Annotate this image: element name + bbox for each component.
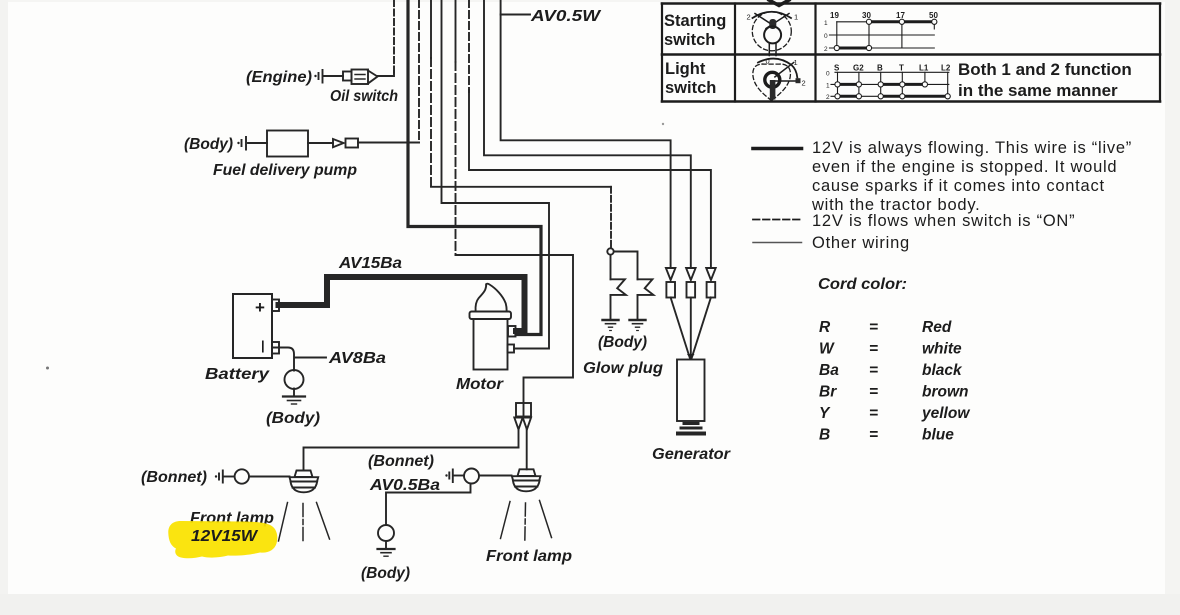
svg-text:white: white	[922, 341, 962, 358]
svg-text:Oil switch: Oil switch	[330, 88, 398, 105]
svg-text:(Body): (Body)	[598, 334, 647, 351]
svg-text:AV0.5W: AV0.5W	[530, 8, 602, 25]
motor terminal 1	[508, 326, 516, 337]
generator body	[677, 360, 705, 422]
wire generator diode 1	[501, 0, 671, 268]
light switch rotary symbol	[753, 57, 806, 101]
svg-text:1: 1	[794, 58, 798, 67]
battery body connector circle	[285, 370, 304, 389]
svg-text:Other wiring: Other wiring	[812, 234, 910, 252]
wire motor terminal 2	[442, 0, 550, 349]
starting switch rotary symbol	[747, 12, 799, 56]
svg-text:=: =	[869, 362, 878, 379]
fuel delivery pump box	[267, 131, 308, 157]
wire middle connector to body ground	[386, 484, 471, 525]
wire glow plug feed	[430, 0, 432, 58]
svg-text:12V is always flowing. This wi: 12V is always flowing. This wire is “liv…	[812, 139, 1132, 157]
svg-text:1: 1	[824, 20, 828, 27]
wire fuel pump feed (dashed riser)	[418, 0, 420, 143]
svg-text:(Bonnet): (Bonnet)	[368, 453, 434, 470]
front lamp left rays	[279, 503, 330, 542]
svg-text:Red: Red	[922, 319, 952, 336]
svg-text:2: 2	[747, 13, 751, 22]
speck	[46, 367, 49, 370]
svg-text:switch: switch	[665, 79, 716, 97]
svg-text:12V is flows when switch is “O: 12V is flows when switch is “ON”	[812, 212, 1075, 230]
svg-text:brown: brown	[922, 384, 969, 401]
wire battery cable AV15Ba (thick)	[279, 277, 525, 331]
svg-text:1: 1	[794, 13, 798, 22]
svg-text:(Bonnet): (Bonnet)	[141, 469, 207, 486]
generator shaft coupling	[684, 422, 698, 425]
light switch contact diagram	[826, 64, 951, 102]
svg-text:0: 0	[824, 33, 828, 40]
svg-text:=: =	[869, 384, 878, 401]
svg-text:AV15Ba: AV15Ba	[338, 255, 403, 272]
glow plug ground right	[630, 319, 646, 321]
svg-text:0: 0	[826, 71, 830, 78]
svg-text:switch: switch	[664, 31, 715, 49]
generator diode 2	[686, 268, 696, 280]
glow plug ground left	[603, 319, 619, 321]
battery	[233, 294, 272, 358]
svg-text:Battery: Battery	[205, 366, 271, 383]
legend thin line sample	[753, 242, 802, 244]
wire fuel pump to connector	[308, 142, 333, 144]
wire middle bonnet tick to connector circle	[453, 475, 464, 477]
wire battery ground below circle	[293, 389, 295, 396]
svg-text:W: W	[819, 341, 835, 358]
battery negative terminal	[272, 342, 279, 354]
svg-text:Cord color:: Cord color:	[818, 276, 907, 293]
wire oil switch feed (dashed riser)	[393, 0, 395, 73]
svg-text:|: |	[261, 338, 265, 353]
battery positive terminal	[272, 300, 279, 312]
svg-text:1: 1	[826, 83, 830, 90]
svg-text:B: B	[877, 64, 883, 73]
svg-text:in the same manner: in the same manner	[958, 81, 1118, 100]
svg-text:even if the engine is stopped.: even if the engine is stopped. It would	[812, 158, 1117, 176]
oil switch connector	[343, 72, 352, 81]
svg-text:17: 17	[896, 11, 905, 20]
engine chassis tick at oil switch	[314, 75, 316, 77]
svg-text:Ba: Ba	[819, 362, 839, 379]
motor body	[474, 319, 508, 370]
svg-text:L2: L2	[941, 64, 951, 73]
wire lamp bus	[304, 448, 519, 471]
glow plug element left	[611, 279, 626, 295]
svg-text:Generator: Generator	[652, 446, 731, 463]
body chassis tick at fuel pump	[237, 142, 239, 144]
bottom body ground circle	[378, 525, 394, 541]
svg-text:(Engine): (Engine)	[246, 69, 312, 86]
svg-text:Light: Light	[665, 60, 706, 78]
svg-text:+: +	[255, 298, 265, 317]
bottom body ground symbol	[378, 548, 395, 550]
fuse connector triangles	[514, 418, 531, 430]
svg-text:S: S	[834, 64, 840, 73]
front lamp left	[295, 471, 313, 478]
switch table frame	[662, 4, 1160, 102]
svg-text:50: 50	[929, 11, 938, 20]
wire glow node down to left plug	[610, 255, 612, 279]
wire AV0.5W leader	[501, 14, 530, 16]
glow plug element right	[638, 279, 654, 295]
glow plug node circle	[607, 248, 613, 254]
svg-text:Y: Y	[819, 405, 831, 422]
battery ground symbol	[283, 395, 305, 397]
wire AV8Ba leader	[295, 357, 326, 359]
svg-text:T: T	[899, 64, 904, 73]
svg-text:yellow: yellow	[921, 405, 970, 422]
wire glow plugs to grounds	[611, 295, 638, 320]
wire fuse right lead to right lamp	[526, 430, 528, 470]
svg-text:Starting: Starting	[664, 12, 726, 30]
yellow highlighter mark	[168, 521, 277, 558]
svg-text:B: B	[819, 427, 830, 444]
legend thick line sample	[753, 147, 802, 151]
starting switch contact diagram	[824, 11, 938, 53]
svg-text:G2: G2	[853, 64, 864, 73]
svg-text:cause sparks if it comes into: cause sparks if it comes into contact	[812, 177, 1105, 195]
svg-text:=: =	[869, 405, 878, 422]
left lamp connector circle	[235, 469, 249, 483]
wire starter live feed (thick)	[408, 0, 541, 335]
wire middle connector circle to right lamp	[480, 475, 512, 477]
wire generator diode outputs converge	[671, 298, 711, 359]
wire left connector circle to left lamp	[249, 476, 290, 478]
svg-text:=: =	[869, 319, 878, 336]
svg-text:(Body): (Body)	[361, 565, 410, 582]
wire generator diode 3	[468, 0, 470, 92]
svg-text:12V15W: 12V15W	[191, 528, 259, 545]
svg-text:Fuel delivery pump: Fuel delivery pump	[213, 162, 357, 179]
wire fuse left lead to lamp bus	[518, 430, 520, 448]
svg-text:Front lamp: Front lamp	[486, 548, 572, 565]
svg-text:Both 1 and 2 function: Both 1 and 2 function	[958, 60, 1132, 79]
svg-text:Br: Br	[819, 384, 837, 401]
svg-text:19: 19	[830, 11, 839, 20]
fuel pump connector triangle	[333, 139, 344, 147]
middle bonnet chassis tick	[445, 474, 447, 476]
svg-text:Glow plug: Glow plug	[583, 360, 664, 377]
front lamp right	[518, 469, 536, 476]
generator diode 3	[706, 268, 716, 280]
svg-text:0: 0	[766, 57, 770, 66]
svg-text:=: =	[869, 341, 878, 358]
left bonnet chassis tick	[215, 475, 217, 477]
motor cap band	[470, 312, 512, 320]
wire body tick to fuel pump	[248, 142, 267, 144]
svg-text:(Body): (Body)	[184, 136, 233, 153]
legend dashed line sample	[753, 219, 802, 221]
svg-text:blue: blue	[922, 427, 954, 444]
wire battery negative to body ground	[273, 348, 295, 371]
wire connector square to riser	[358, 142, 419, 144]
front lamp right rays	[501, 501, 552, 539]
wire lamp circuit feed (dashed riser to fuse)	[455, 0, 457, 62]
svg-text:(Body): (Body)	[266, 410, 320, 427]
svg-text:Motor: Motor	[456, 376, 504, 393]
svg-text:AV0.5Ba: AV0.5Ba	[369, 477, 441, 494]
middle connector circle	[464, 469, 479, 484]
svg-text:L1: L1	[919, 64, 929, 73]
wire engine tick to oil switch	[324, 75, 343, 77]
motor terminal 2	[508, 345, 515, 353]
svg-text:2: 2	[826, 94, 830, 101]
svg-text:AV8Ba: AV8Ba	[328, 350, 387, 367]
svg-text:2: 2	[802, 79, 806, 88]
svg-text:2: 2	[824, 46, 828, 53]
fuel pump connector square	[346, 139, 359, 148]
svg-text:black: black	[922, 362, 963, 379]
cord color table	[819, 319, 970, 444]
page edge shading	[0, 0, 8, 615]
wire glow node to right plug	[614, 252, 638, 280]
svg-text:R: R	[819, 319, 831, 336]
generator diode 1	[666, 268, 676, 280]
cut-off symbol tip above table	[769, 0, 789, 6]
wire body ground below bottom circle	[385, 541, 387, 548]
svg-text:30: 30	[862, 11, 871, 20]
wire left bonnet tick to connector circle	[223, 476, 235, 478]
fuse connector block	[516, 403, 531, 417]
wire generator diode 2	[484, 0, 691, 268]
svg-text:=: =	[869, 427, 878, 444]
motor dome	[476, 284, 507, 312]
